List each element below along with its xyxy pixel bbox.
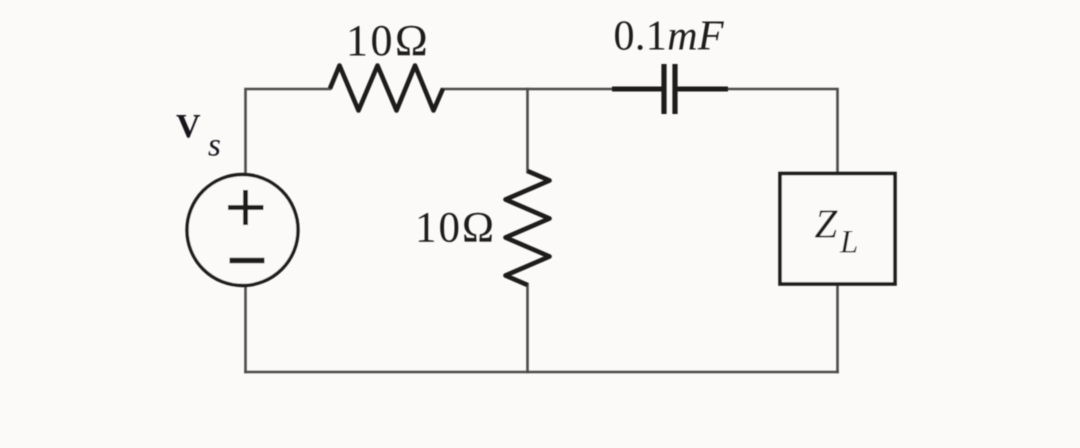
svg-text:0.1mF: 0.1mF xyxy=(614,14,725,60)
svg-text:s: s xyxy=(208,128,221,164)
svg-text:V: V xyxy=(176,108,201,145)
svg-text:10Ω: 10Ω xyxy=(415,205,496,252)
svg-text:Z: Z xyxy=(815,201,839,247)
svg-text:L: L xyxy=(839,225,858,261)
svg-text:10Ω: 10Ω xyxy=(346,16,430,65)
